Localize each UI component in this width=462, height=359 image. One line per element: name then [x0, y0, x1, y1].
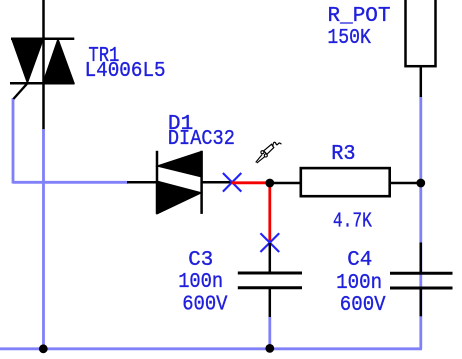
wire: [270, 182, 300, 185]
wire: [268, 317, 271, 349]
wire: [42, 129, 45, 350]
red wire: [268, 183, 271, 244]
node junction: [265, 344, 274, 353]
svg-text:100n: 100n: [336, 272, 382, 295]
svg-text:R_POT: R_POT: [328, 5, 391, 28]
svg-text:600V: 600V: [340, 294, 386, 317]
svg-text:100n: 100n: [178, 271, 223, 294]
triac TR1: [10, 39, 75, 99]
node junction: [39, 344, 48, 353]
resistor R3: [301, 168, 390, 196]
X mark: [260, 233, 279, 252]
capacitor C3: [238, 243, 302, 318]
wire: [12, 98, 15, 184]
wire: [42, 0, 45, 130]
svg-text:R3: R3: [331, 143, 355, 166]
node junction: [416, 179, 425, 188]
X mark: [223, 173, 241, 192]
svg-text:DIAC32: DIAC32: [168, 128, 235, 151]
node junction: [265, 179, 274, 188]
wire: [0, 347, 422, 350]
svg-text:4.7K: 4.7K: [333, 210, 372, 233]
svg-text:600V: 600V: [182, 294, 228, 317]
svg-text:C4: C4: [347, 249, 372, 272]
wire: [419, 97, 422, 349]
diac D1: [127, 151, 232, 214]
resistor R_POT: [406, 0, 436, 97]
wire: [13, 181, 128, 184]
probe icon: [256, 142, 282, 163]
svg-text:150K: 150K: [327, 27, 371, 50]
svg-text:L4006L5: L4006L5: [85, 60, 166, 83]
capacitor C4: [390, 243, 453, 317]
wire: [391, 182, 421, 185]
red wire: [232, 181, 270, 184]
svg-text:C3: C3: [188, 249, 213, 272]
